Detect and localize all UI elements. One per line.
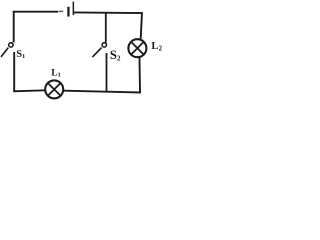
wire: top rail left faded scan segment xyxy=(59,10,64,12)
switch S1 xyxy=(1,43,13,57)
wire: right rail lower segment (lamp L2 to bottom rail) xyxy=(139,58,142,93)
switch S2 xyxy=(92,43,106,57)
wire: bottom rail right segment xyxy=(64,91,141,93)
svg-text:S1: S1 xyxy=(16,49,25,60)
lamp L1 xyxy=(45,80,63,98)
wire: top rail right segment xyxy=(74,11,143,14)
wire: bottom rail left segment xyxy=(13,90,44,91)
wire: top rail left segment xyxy=(13,11,58,13)
wire: left rail upper segment xyxy=(13,11,15,43)
wire: S2 branch lower segment xyxy=(106,53,108,92)
svg-text:L1: L1 xyxy=(51,68,61,79)
wire: right rail upper segment (to lamp L2) xyxy=(141,12,142,38)
svg-text:S2: S2 xyxy=(110,48,121,63)
lamp L2 xyxy=(128,39,146,57)
battery (cell) xyxy=(67,2,74,17)
svg-text:L2: L2 xyxy=(151,40,162,53)
wire: left rail lower segment xyxy=(13,52,15,92)
wire: S2 branch upper segment xyxy=(105,12,107,42)
